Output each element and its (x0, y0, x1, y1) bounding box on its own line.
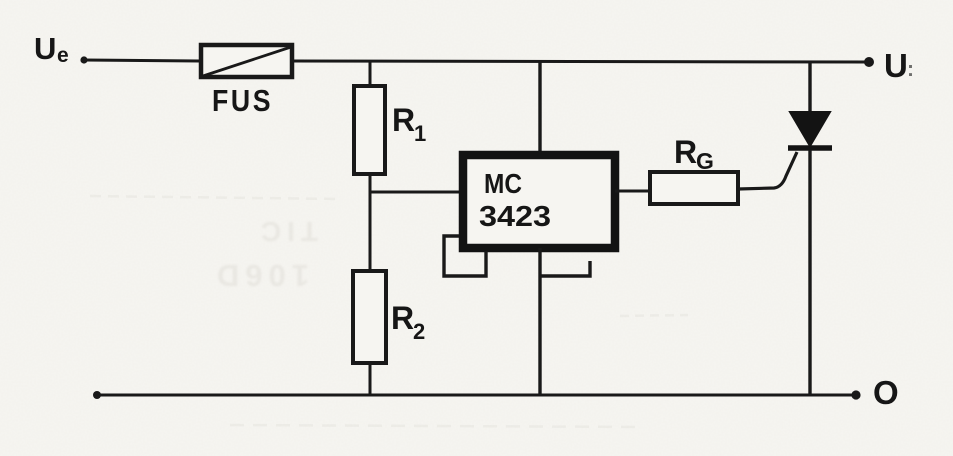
label RG (674, 134, 714, 174)
wire R2 to bottom rail (369, 363, 372, 396)
svg-text:106D: 106D (211, 258, 309, 293)
svg-text:e: e (57, 44, 69, 67)
wire top rail fuse to U terminal (293, 61, 869, 62)
svg-text:U: U (884, 47, 908, 84)
wire top rail to R1 (369, 61, 372, 86)
svg-text:MC: MC (484, 168, 522, 199)
wire thyristor cathode to bottom rail (808, 150, 811, 396)
wire IC output to RG (615, 190, 650, 193)
node O terminal dot left (93, 391, 101, 399)
node U label (884, 47, 914, 84)
op-amp U1 MC3423 (463, 155, 615, 248)
wire R1 to R2 (369, 174, 372, 271)
wire IC pin loop left (444, 236, 486, 276)
svg-text:1: 1 (414, 121, 426, 146)
svg-text:O: O (873, 374, 899, 411)
node Ue terminal dot (80, 56, 87, 63)
wire top rail to thyristor anode (808, 61, 811, 114)
svg-text:3423: 3423 (479, 201, 551, 233)
node U terminal dot (864, 57, 874, 67)
node O terminal dot right (851, 390, 860, 399)
node Ue label (34, 31, 69, 67)
svg-text:2: 2 (413, 319, 425, 344)
resistor R2 (353, 271, 386, 363)
label R2 (391, 300, 425, 344)
wire IC bottom pin to bottom rail (538, 248, 541, 396)
resistor R1 (354, 86, 385, 174)
wire IC pin stub right (540, 261, 590, 276)
wire Ue to fuse (84, 60, 199, 61)
svg-text:TIC: TIC (255, 216, 318, 247)
svg-text:R: R (674, 134, 697, 170)
svg-text:R: R (391, 300, 414, 336)
wire top rail to IC top pin (538, 61, 541, 155)
resistor RG (650, 172, 738, 204)
wire RG to thyristor gate (738, 152, 797, 189)
svg-text:R: R (392, 102, 415, 138)
svg-text:G: G (696, 148, 714, 174)
svg-text:FUS: FUS (212, 84, 273, 118)
wire bottom rail (97, 394, 856, 397)
svg-text::: : (907, 58, 914, 81)
wire node to IC pin 2 (370, 191, 459, 194)
fuse FUS (201, 45, 292, 77)
svg-text:U: U (34, 31, 56, 66)
thyristor Q1 (788, 112, 832, 148)
label R1 (392, 102, 426, 146)
